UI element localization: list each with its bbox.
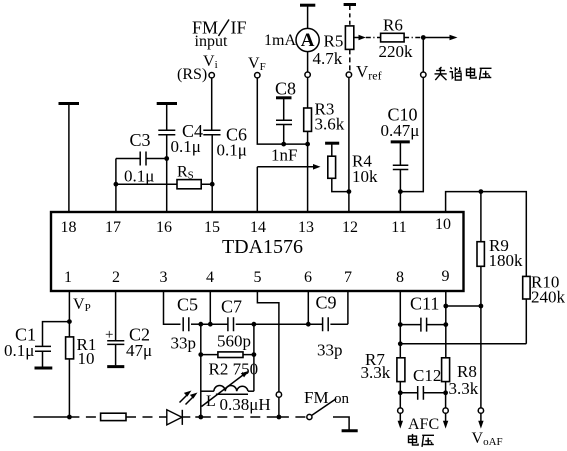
svg-text:1nF: 1nF [271,146,297,165]
bottom rail dashed to LED [126,416,167,418]
wire pin 9 down [445,291,447,358]
bottom rail dashed to series box [69,416,100,418]
wiper arrow from R5 [354,35,366,40]
svg-text:17: 17 [105,219,121,236]
series resistor box (unlabeled) [101,413,126,420]
wire pin 14 [256,167,258,212]
junction AFC rail left [398,341,403,346]
svg-text:16: 16 [156,219,172,236]
junction pin6 / C9 left [306,322,311,327]
junction pin 4 [208,322,213,327]
bottom rail solid left [34,416,70,418]
svg-text:10k: 10k [352,167,378,186]
terminal VF [255,73,260,78]
arrow VoAF down [478,413,483,428]
svg-text:6: 6 [304,269,312,286]
svg-text:3.6k: 3.6k [315,115,345,134]
svg-text:A: A [301,30,315,51]
wire pin 3 [164,291,181,324]
wire C5 node to C7 [201,323,228,325]
svg-text:10: 10 [435,216,451,233]
wire pin 11 [399,192,401,212]
terminal AFC right [443,408,448,413]
resistor R9 180k [477,192,523,306]
svg-text:C3: C3 [130,130,151,150]
svg-text:L: L [206,393,216,410]
svg-text:47μ: 47μ [126,341,152,360]
resistor RS [116,164,212,189]
capacitor C9 33p [316,293,348,360]
svg-text:Vref: Vref [356,62,382,83]
ground-rail bar below C1 [35,367,53,370]
resistor R7 3.3k [361,350,405,408]
wire long rail pin8 to R10 bottom [400,343,526,345]
svg-text:AFC: AFC [408,416,439,433]
supply rail terminal above ammeter [300,4,315,7]
svg-text:R2 750: R2 750 [209,360,259,379]
svg-text:input: input [195,33,228,50]
svg-text:560p: 560p [217,332,251,351]
terminal below ammeter [305,72,310,77]
svg-text:VoAF: VoAF [472,430,503,448]
junction R9 bottom / VoAF line [479,304,484,309]
diode D1 LED [167,391,198,425]
svg-text:5: 5 [254,269,262,286]
wire pin 6 [307,291,309,324]
supply rail terminal above C10 [391,140,410,143]
capacitor C8 1nF [271,79,297,165]
node RS / Vi line junction [210,182,215,187]
junction C8 bottom [281,142,286,147]
capacitor C7 560p [217,297,254,351]
junction R2 right [252,352,257,357]
wire detuning terminal down to pin11 node [400,77,423,191]
svg-text:C8: C8 [275,79,296,99]
svg-text:C7: C7 [221,297,242,317]
arrow AFC left down [398,413,403,428]
junction C11 right on pin9 wire [443,322,448,327]
wire pin 17 [115,159,117,213]
resistor R10 240k [523,273,566,344]
junction tank right top [252,322,257,327]
resistor R6 220k [379,16,414,62]
resistor R5 4.7k variable [313,6,354,72]
wire pin 13 [307,144,309,212]
capacitor C4 [158,105,203,157]
label detuning voltage (Chinese) [435,67,492,80]
svg-text:1mA: 1mA [264,32,296,49]
svg-text:18: 18 [61,219,77,236]
junction R4 bottom to pin12 wire [347,189,352,194]
capacitor C10 [381,105,420,192]
junction on bottom rail [277,415,282,420]
resistor R8 3.3k [442,358,479,408]
IC U1 TDA1576 body [51,212,464,291]
wire pin 10 up and right rail [446,192,527,277]
svg-text:C12: C12 [413,366,441,385]
wire Vi to C6 [211,78,213,130]
svg-text:14: 14 [250,219,266,236]
svg-text:TDA1576: TDA1576 [222,236,303,258]
wire pin9 node to R9 bottom [446,305,481,307]
svg-text:FM: FM [304,388,329,407]
wire pin 4 [209,291,211,324]
wire VF down to C8/R3 node line [257,78,307,144]
junction R3 bottom / pin13 wire [305,142,310,147]
junction C11 left [398,322,403,327]
svg-text:11: 11 [391,219,406,236]
terminal VoAF [478,408,483,413]
junction at detuning node [421,35,426,40]
terminal inline on pin5 drop [276,392,281,397]
supply rail terminal above R5 [344,3,356,6]
svg-text:on: on [334,391,350,407]
junction C10 bottom / pin 11 [398,189,403,194]
ammeter M1 1mA [264,7,319,73]
junction R9 top [479,189,484,194]
wire pin 1 VP [68,291,70,417]
wire pin 16 [166,135,168,212]
svg-text:180k: 180k [489,251,524,270]
svg-text:15: 15 [204,219,220,236]
dash-dot wire R5 wiper to R6 [366,37,381,39]
junction C12 right [443,390,448,395]
junction tank bottom on dashed rail [198,415,203,420]
supply rail terminal above C4 [157,102,177,105]
capacitor C3 [116,130,167,186]
wire pin 12 [348,77,350,212]
switch S1 FM on [304,388,350,430]
svg-text:R6: R6 [383,16,403,35]
ground-rail bar below C2 [107,365,124,368]
svg-text:33p: 33p [171,334,197,353]
wire pin 18 [68,105,70,213]
ground-rail bar below switch [342,429,358,432]
bottom rail dashed to switch [279,416,307,418]
svg-text:33p: 33p [317,341,343,360]
svg-text:0.1μ: 0.1μ [124,167,154,186]
svg-text:0.47μ: 0.47μ [381,121,420,140]
supply rail terminal above pin 18 [59,102,80,105]
wire VoAF line down [480,306,482,408]
svg-text:RS: RS [177,164,194,182]
svg-text:3.3k: 3.3k [361,363,391,382]
svg-text:0.1μ: 0.1μ [4,341,34,360]
inductor L 0.38uH adjustable [201,371,271,414]
bottom rail dashed LED to tank [182,416,201,418]
svg-text:0.1μ: 0.1μ [217,141,247,160]
terminal Vref [346,72,351,77]
bottom rail dashed tank to pin5 drop [201,416,279,418]
wire pin 7 [347,291,349,324]
supply rail terminal above R4 [325,142,339,145]
svg-text:VF: VF [248,55,266,73]
resistor R2 750 [201,352,258,379]
junction pin9/R9 line [443,304,448,309]
capacitor C11 [400,294,446,332]
dash-dot wire R6 to node [404,37,423,39]
wire node down to detuning terminal [422,38,424,73]
wire terminal to bottom rail [278,397,280,417]
junction C1 branch [67,319,72,324]
capacitor C12 [400,366,445,400]
wire tank left vertical [200,324,202,417]
junction on pin17 wire at RS line [114,182,119,187]
svg-text:9: 9 [442,268,450,285]
wire tank right node to C9 [254,323,322,325]
svg-text:C9: C9 [316,293,337,313]
wire tank right vertical [253,324,255,391]
svg-text:0.1μ: 0.1μ [171,137,201,156]
svg-text:R5: R5 [324,32,344,51]
wire pin 2 [115,291,117,340]
svg-text:C11: C11 [410,294,439,314]
svg-text:IF: IF [231,18,247,38]
junction tank left top [198,322,203,327]
resistor R1 10 [66,335,97,368]
svg-text:3: 3 [160,269,168,286]
junction C12 left [398,390,403,395]
capacitor C6 [203,125,247,213]
svg-text:4: 4 [206,269,214,286]
svg-text:C5: C5 [177,295,198,315]
wiper arrow to R4 from pin14 wire [257,164,320,170]
svg-text:7: 7 [344,269,352,286]
svg-text:2: 2 [112,269,120,286]
svg-text:0.38μH: 0.38μH [220,395,271,414]
svg-text:1: 1 [64,269,72,286]
wire pin 8 down [399,291,401,358]
terminal Vi input [209,73,214,78]
svg-text:8: 8 [396,269,404,286]
svg-text:240k: 240k [531,288,566,307]
arrow to external (right) [423,35,457,41]
svg-text:12: 12 [342,219,358,236]
capacitor C1 [4,322,69,367]
svg-text:10: 10 [78,349,95,368]
wire pin 5 route [257,291,279,392]
capacitor C2 electrolytic 47u [105,325,152,366]
arrow AFC right down [443,413,448,428]
resistor R3 [304,78,345,144]
resistor R4 10k variable [328,145,378,192]
svg-text:(RS): (RS) [177,66,207,83]
junction R2 left [198,352,203,357]
terminal detuning voltage [421,72,426,77]
junction R1 bottom on rail [67,415,72,420]
node C3/C4/pin16 junction [164,156,169,161]
terminal AFC left [398,408,403,413]
svg-text:VP: VP [73,296,91,314]
capacitor C5 33p [171,295,201,353]
svg-text:220k: 220k [379,42,414,61]
svg-text:4.7k: 4.7k [313,49,343,68]
svg-text:13: 13 [298,219,314,236]
svg-text:3.3k: 3.3k [449,379,479,398]
